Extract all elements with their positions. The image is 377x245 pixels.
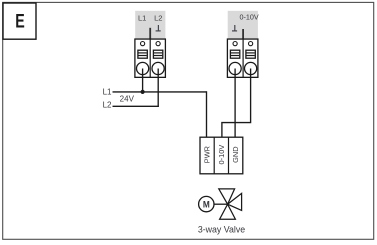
wire L1 to PWR <box>206 91 208 137</box>
sheet label E <box>3 3 36 39</box>
wire TB2-1 to GND <box>234 69 236 138</box>
svg-text:L2: L2 <box>154 14 162 23</box>
wire TB2-2 to 0-10V <box>222 69 251 138</box>
svg-text:24V: 24V <box>120 94 135 103</box>
wire L2 horizontal <box>113 105 159 107</box>
svg-text:L1: L1 <box>138 14 146 23</box>
motor M1 <box>199 196 214 211</box>
TB2 terminal 1 <box>229 42 241 75</box>
wire TB1-1 to L1 <box>142 69 144 92</box>
svg-text:L2: L2 <box>103 101 112 110</box>
common symbol TB1 <box>156 25 161 31</box>
TB1 terminal 1 <box>137 42 149 75</box>
wire L1 horizontal <box>113 91 207 93</box>
junction L1/TB1-1 <box>141 90 145 94</box>
terminal block TB1 label area <box>135 11 165 39</box>
terminal block TB2 body <box>227 39 258 77</box>
svg-text:E: E <box>15 10 24 32</box>
TB1 terminal 2 <box>152 42 164 75</box>
terminal block TB1 body <box>135 39 166 77</box>
svg-text:M: M <box>203 199 210 210</box>
actuator terminal box <box>200 137 243 174</box>
svg-text:3-way Valve: 3-way Valve <box>198 225 245 235</box>
svg-text:GND: GND <box>231 146 240 162</box>
TB1 cable stub <box>149 28 151 39</box>
svg-text:0-10V: 0-10V <box>240 12 259 21</box>
TB2 cable stub <box>242 29 244 39</box>
wire motor to valve <box>214 203 228 205</box>
svg-text:L1: L1 <box>103 87 112 96</box>
wire TB1-2 to L2 <box>157 69 159 107</box>
common symbol TB2 <box>232 25 237 31</box>
TB2 terminal 2 <box>245 42 257 75</box>
terminal block TB2 label area <box>228 11 258 39</box>
valve V1 (3-way) <box>219 189 242 219</box>
svg-text:0-10V: 0-10V <box>217 145 226 165</box>
svg-text:PWR: PWR <box>203 146 212 163</box>
